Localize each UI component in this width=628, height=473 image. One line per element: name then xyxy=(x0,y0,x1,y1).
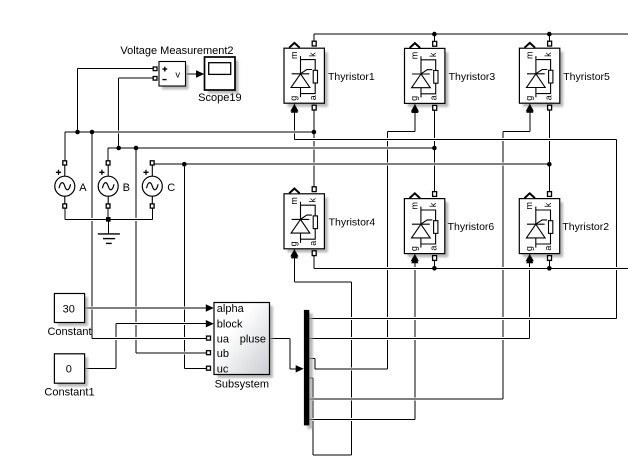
svg-text:0: 0 xyxy=(66,363,72,375)
arrowhead into demux xyxy=(296,365,304,372)
svg-text:Thyristor2: Thyristor2 xyxy=(562,221,609,233)
wire VM- horizontal xyxy=(119,77,153,79)
ground xyxy=(98,234,120,244)
wire T4 gate return xyxy=(294,281,351,283)
wire ua horizontal xyxy=(92,337,207,339)
wire ub tap vertical xyxy=(135,148,137,353)
svg-text:Thyristor1: Thyristor1 xyxy=(328,71,375,83)
voltage measurement block U-VM xyxy=(153,62,188,90)
AC source C xyxy=(142,161,162,208)
wire phase A xyxy=(65,131,314,133)
junction node top bus / T5 k xyxy=(547,32,552,37)
wire out3 jog vertical xyxy=(314,358,316,369)
wire demux out3 jog xyxy=(309,357,315,359)
wire out4 return vertical xyxy=(351,282,353,455)
svg-text:ub: ub xyxy=(217,348,229,360)
wire uc tap vertical xyxy=(183,164,185,368)
svg-text:Voltage Measurement2: Voltage Measurement2 xyxy=(120,45,233,57)
wire T2 a stub xyxy=(548,261,550,269)
wire T4 a stub xyxy=(313,256,315,268)
junction node phase C / uc xyxy=(182,162,187,167)
wire source C bottom xyxy=(151,209,153,220)
wire out3 vertical xyxy=(387,131,389,369)
thyristor Thyristor6 xyxy=(404,192,448,264)
arrowhead T5 gate xyxy=(526,103,534,111)
wire T1 gate vertical xyxy=(293,107,295,139)
arrowhead T6 gate xyxy=(411,253,419,261)
junction node phase B / VM- xyxy=(116,146,121,151)
wire out5 vertical xyxy=(502,131,504,399)
svg-text:Scope19: Scope19 xyxy=(198,92,241,104)
wire into demux xyxy=(290,368,299,370)
svg-text:ua: ua xyxy=(217,333,230,345)
wire demux out1 xyxy=(309,318,616,320)
svg-text:C: C xyxy=(167,182,175,194)
wire pluse riser xyxy=(289,338,291,369)
wire phase A link T1a-T4k xyxy=(313,111,315,187)
junction node top bus / T3 k xyxy=(432,32,437,37)
wire VM+ horizontal xyxy=(78,68,154,70)
junction node phase B / T3 anode xyxy=(432,146,437,151)
wire out1 vertical right xyxy=(615,139,617,318)
wire T3 gate vertical xyxy=(414,107,416,131)
svg-text:Thyristor5: Thyristor5 xyxy=(563,71,610,83)
constant block Constant1 (0) xyxy=(54,354,88,387)
arrowhead T3 gate xyxy=(411,104,419,112)
wire T3 k stub xyxy=(433,34,435,41)
wire Constant to alpha xyxy=(85,307,208,309)
arrowhead T4 gate xyxy=(290,249,298,257)
wire Constant1 horizontal xyxy=(85,367,116,369)
wire Constant1 riser xyxy=(115,324,117,369)
svg-text:block: block xyxy=(217,319,243,331)
AC source B xyxy=(98,161,118,208)
svg-text:Thyristor4: Thyristor4 xyxy=(329,216,376,228)
arrowhead T2 gate xyxy=(526,253,534,261)
svg-text:B: B xyxy=(123,182,130,194)
wire uc horizontal xyxy=(184,367,206,369)
svg-text:A: A xyxy=(79,182,87,194)
wire T5 gate vertical xyxy=(529,107,531,131)
wire T6 a stub xyxy=(433,261,435,269)
arrowhead block input xyxy=(206,320,214,327)
wire out4 down vertical xyxy=(312,378,314,455)
constant block Constant (30) xyxy=(54,294,88,326)
wire source B top xyxy=(107,148,109,160)
thyristor Thyristor3 xyxy=(405,41,449,113)
arrowhead into Scope19 xyxy=(196,70,204,78)
junction node sources neutral xyxy=(106,217,111,222)
wire demux out6 xyxy=(309,418,415,420)
wire T2 gate vertical xyxy=(529,257,531,339)
junction node bottom bus / T2 a xyxy=(547,266,552,271)
thyristor Thyristor4 xyxy=(284,187,328,259)
scope block Scope19 xyxy=(205,57,239,94)
svg-text:30: 30 xyxy=(63,303,75,315)
svg-text:pluse: pluse xyxy=(240,333,266,345)
thyristor Thyristor5 xyxy=(519,41,563,113)
junction node phase A / VM+ xyxy=(75,130,80,135)
wire VM- vertical tap xyxy=(118,78,120,148)
wire phase B xyxy=(108,147,434,149)
wire crossing halos (rendering aid, not a component) xyxy=(67,34,628,419)
svg-text:Constant1: Constant1 xyxy=(44,387,94,399)
wire T1 gate return xyxy=(294,138,616,140)
wire demux out3 horizontal xyxy=(315,368,387,370)
svg-text:uc: uc xyxy=(217,363,229,375)
svg-text:Constant: Constant xyxy=(47,326,91,338)
arrowhead alpha input xyxy=(206,304,214,311)
wire block input horizontal xyxy=(116,323,208,325)
arrowhead T1 gate xyxy=(290,103,298,111)
wire pluse out horizontal xyxy=(270,337,290,339)
wire T6 gate vertical xyxy=(414,257,416,419)
wire phase C xyxy=(155,163,550,165)
wire T1 k stub xyxy=(313,34,315,41)
wire top cathode bus xyxy=(314,33,628,35)
wire demux out4 bottom xyxy=(313,454,351,456)
wire T5 gate hook xyxy=(503,130,530,132)
wire T5 k stub xyxy=(548,34,550,41)
svg-text:Subsystem: Subsystem xyxy=(215,378,269,390)
svg-text:Thyristor6: Thyristor6 xyxy=(448,221,495,233)
wire T4 gate vertical xyxy=(293,252,295,282)
AC source A xyxy=(55,161,75,208)
wire bottom anode bus xyxy=(314,267,628,269)
subsystem block U-SUB xyxy=(207,303,273,378)
wire source B bottom xyxy=(107,209,109,220)
wire sources common bottom xyxy=(65,218,153,220)
demux bar xyxy=(304,310,313,429)
junction node phase A / ua xyxy=(90,130,95,135)
junction node phase C / T5 anode xyxy=(547,162,552,167)
wire phase B link T3a-T6k xyxy=(433,111,435,192)
svg-text:v: v xyxy=(175,69,180,80)
wire source A top xyxy=(64,132,66,160)
wire demux out4 jog xyxy=(309,377,313,379)
wire VM+ vertical tap xyxy=(77,69,79,132)
wire VM to Scope19 xyxy=(186,73,199,75)
thyristor Thyristor1 xyxy=(284,41,328,113)
pin labels + and - xyxy=(162,67,167,80)
wire T3 gate hook xyxy=(388,130,415,132)
svg-text:Thyristor3: Thyristor3 xyxy=(449,71,496,83)
wire phase C link T5a-T2k xyxy=(548,111,550,192)
junction node phase A / T1 anode xyxy=(312,130,317,135)
wire ground stem xyxy=(107,219,109,233)
svg-text:alpha: alpha xyxy=(217,303,245,315)
wire ub horizontal xyxy=(136,352,207,354)
wire demux out5 xyxy=(309,398,503,400)
junction node phase B / ub xyxy=(134,146,139,151)
wire ua tap vertical xyxy=(91,132,93,338)
wire demux out2 xyxy=(309,338,529,340)
junction node bottom bus / T6 a xyxy=(432,266,437,271)
wire source A bottom xyxy=(64,209,66,220)
thyristor Thyristor2 xyxy=(519,192,563,264)
